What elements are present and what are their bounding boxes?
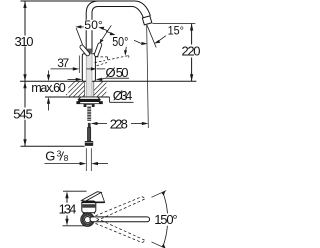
svg-text:220: 220 bbox=[182, 44, 201, 59]
svg-text:228: 228 bbox=[110, 117, 128, 132]
svg-text:545: 545 bbox=[13, 107, 33, 122]
svg-text:15°: 15° bbox=[168, 25, 184, 37]
svg-text:37: 37 bbox=[57, 56, 69, 70]
svg-text:max.60: max.60 bbox=[31, 81, 66, 95]
svg-text:Ø34: Ø34 bbox=[113, 88, 133, 103]
svg-text:50°: 50° bbox=[84, 20, 103, 32]
svg-text:G: G bbox=[45, 149, 55, 164]
svg-text:134: 134 bbox=[59, 202, 77, 217]
svg-text:8: 8 bbox=[64, 153, 69, 163]
svg-text:Ø 50: Ø 50 bbox=[106, 65, 129, 80]
svg-text:310: 310 bbox=[15, 34, 34, 49]
svg-text:150°: 150° bbox=[154, 212, 177, 227]
